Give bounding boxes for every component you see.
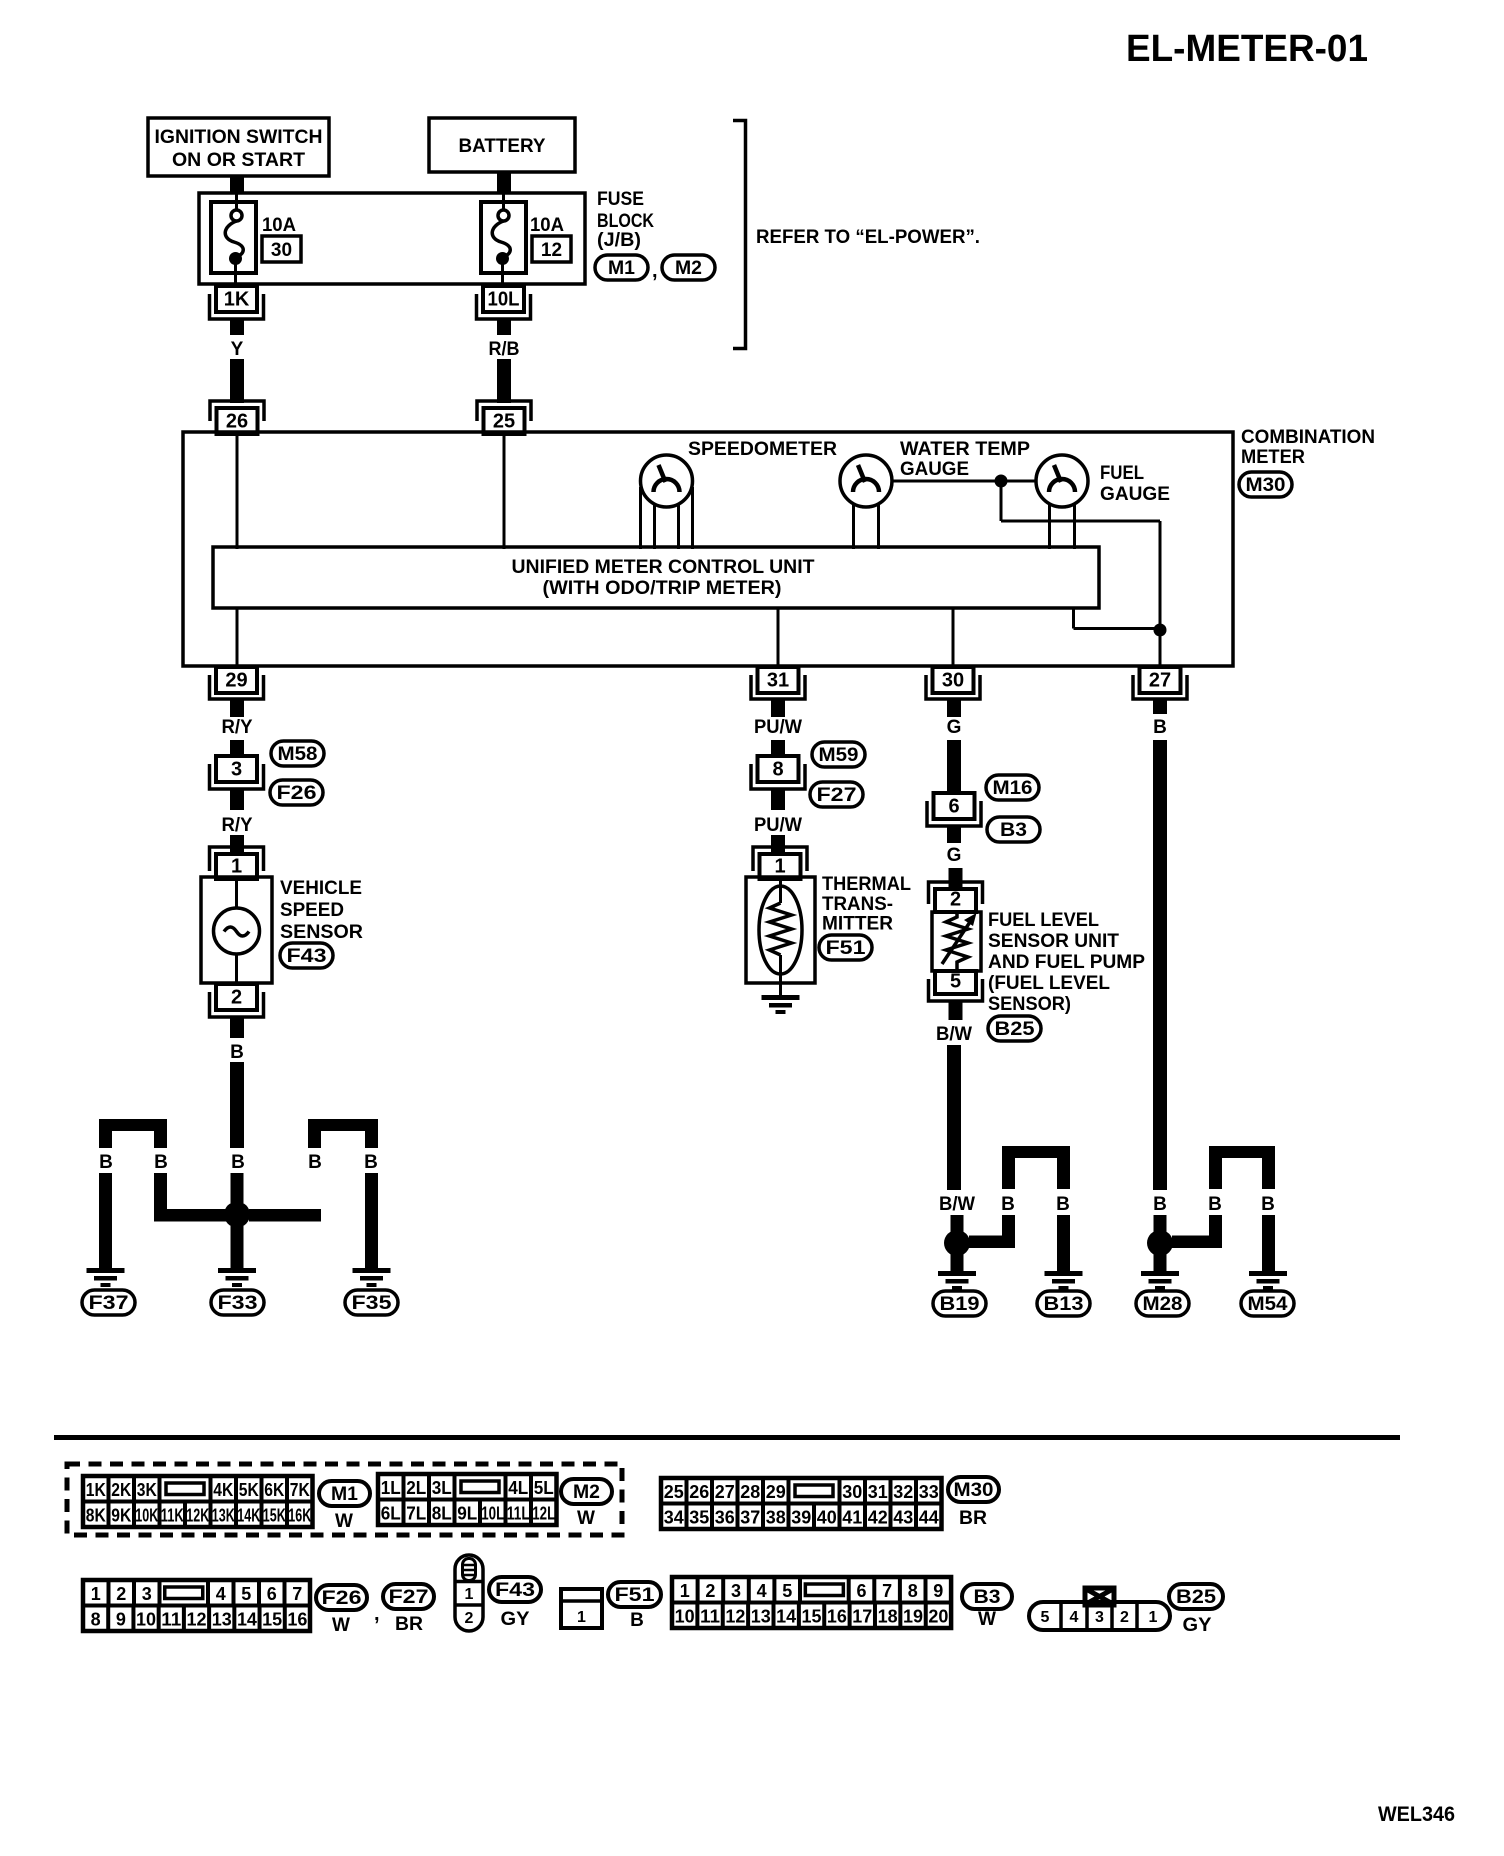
wire PU/W to thermal transmitter <box>771 835 785 854</box>
dashed box (fuse block connectors) <box>67 1464 622 1535</box>
svg-text:COMBINATION: COMBINATION <box>1241 427 1375 448</box>
svg-text:5L: 5L <box>534 1478 554 1498</box>
connector 3 (M58/F26) <box>216 756 257 782</box>
svg-text:26: 26 <box>689 1482 709 1502</box>
connector 31 (combination meter) <box>758 667 799 693</box>
svg-text:3: 3 <box>731 1581 741 1601</box>
svg-text:B3: B3 <box>1000 820 1027 841</box>
svg-text:25: 25 <box>493 411 515 433</box>
svg-text:16: 16 <box>287 1610 307 1630</box>
svg-text:17: 17 <box>852 1607 872 1627</box>
fuse number box 30 <box>262 236 301 262</box>
svg-text:F43: F43 <box>495 1580 535 1601</box>
svg-text:33: 33 <box>919 1482 939 1502</box>
svg-text:R/Y: R/Y <box>222 815 253 836</box>
wire junction down to pin27 net <box>1000 481 1003 521</box>
svg-text:20: 20 <box>928 1607 948 1627</box>
connector ref M1 (table) <box>319 1481 370 1506</box>
svg-text:3: 3 <box>1095 1609 1104 1626</box>
wire B junction segment M28 <box>1154 1215 1167 1233</box>
svg-text:1K: 1K <box>224 289 250 311</box>
wire UMCU to pin 30 <box>952 607 955 666</box>
svg-text:W: W <box>577 1508 595 1529</box>
svg-text:B: B <box>1056 1194 1070 1215</box>
svg-text:PU/W: PU/W <box>754 815 802 836</box>
svg-text:31: 31 <box>767 670 789 692</box>
svg-text:R/Y: R/Y <box>222 717 253 738</box>
fuel level sensor variable resistor <box>932 912 981 971</box>
svg-text:36: 36 <box>715 1508 735 1528</box>
fuse block J/B outline <box>199 193 585 284</box>
ground symbol F33 <box>218 1268 256 1273</box>
wire R/B to connector 25 <box>497 359 511 403</box>
combination meter outline <box>183 432 1233 666</box>
node junction pin 27 net <box>1154 624 1167 637</box>
svg-text:BR: BR <box>959 1508 987 1529</box>
wire PU/W stub below connector 8 <box>771 789 785 810</box>
svg-text:15: 15 <box>802 1607 822 1627</box>
svg-text:7K: 7K <box>290 1480 310 1500</box>
svg-text:,: , <box>652 260 658 282</box>
svg-text:B: B <box>99 1152 113 1173</box>
svg-text:F33: F33 <box>218 1293 258 1314</box>
connector ref F26 <box>270 780 323 805</box>
svg-text:F35: F35 <box>352 1293 393 1314</box>
svg-text:30: 30 <box>942 670 964 692</box>
svg-text:5: 5 <box>1041 1609 1050 1626</box>
connector ref M28 <box>1136 1291 1189 1316</box>
svg-text:4: 4 <box>1070 1609 1079 1626</box>
ground symbol (thermal transmitter) <box>762 995 800 1000</box>
wire R/Y stub below connector 3 <box>230 789 244 810</box>
svg-text:2: 2 <box>950 889 961 911</box>
svg-text:10K: 10K <box>135 1506 158 1526</box>
svg-text:BLOCK: BLOCK <box>597 211 654 232</box>
svg-text:2: 2 <box>1120 1609 1129 1626</box>
wire G stub below 30 <box>947 699 961 717</box>
svg-text:IGNITION SWITCH: IGNITION SWITCH <box>155 127 323 148</box>
connector 2 (vehicle speed sensor) <box>216 984 257 1010</box>
connector ref F37 <box>82 1290 135 1315</box>
connector ref F51 (table) <box>608 1582 661 1607</box>
svg-text:1: 1 <box>231 856 242 878</box>
svg-text:10A: 10A <box>530 215 564 236</box>
svg-text:M54: M54 <box>1248 1294 1288 1315</box>
svg-text:1: 1 <box>91 1584 101 1604</box>
connector 2 (fuel level sensor) <box>929 882 983 904</box>
wire G to fuel level sensor <box>949 868 963 890</box>
fuse F2 10A (fuse 12) <box>481 202 526 273</box>
svg-text:14: 14 <box>776 1607 796 1627</box>
svg-text:SENSOR: SENSOR <box>280 922 363 943</box>
pin connector F51 (1-pin) <box>561 1589 602 1628</box>
connector ref F27 <box>810 782 863 807</box>
connector 25 (combination meter) <box>477 401 531 421</box>
wire G stub below connector 6 <box>947 827 961 843</box>
svg-text:10L: 10L <box>488 289 520 311</box>
svg-text:5: 5 <box>241 1584 251 1604</box>
svg-text:15K: 15K <box>263 1506 286 1526</box>
svg-text:M1: M1 <box>331 1484 358 1505</box>
svg-text:3: 3 <box>231 759 242 781</box>
wire B down to ground F35 <box>365 1173 378 1268</box>
svg-text:10A: 10A <box>262 215 296 236</box>
svg-text:F43: F43 <box>287 946 327 967</box>
svg-text:1K: 1K <box>86 1480 106 1500</box>
svg-text:F27: F27 <box>817 785 857 806</box>
svg-text:GAUGE: GAUGE <box>900 459 969 480</box>
svg-text:1: 1 <box>680 1581 690 1601</box>
wire UMCU to pin 29 <box>236 607 239 666</box>
svg-text:B13: B13 <box>1044 1294 1084 1315</box>
svg-text:2: 2 <box>705 1581 715 1601</box>
wire pin26 to unified meter control unit <box>236 434 239 549</box>
svg-text:11L: 11L <box>507 1504 530 1524</box>
svg-text:B: B <box>1208 1194 1222 1215</box>
svg-text:37: 37 <box>740 1508 760 1528</box>
wire battery to fuse block <box>497 172 511 194</box>
connector ref M59 <box>812 742 865 767</box>
svg-text:11K: 11K <box>161 1506 184 1526</box>
svg-text:(WITH ODO/TRIP METER): (WITH ODO/TRIP METER) <box>543 578 782 599</box>
fuse number box 12 <box>532 236 571 262</box>
svg-text:29: 29 <box>766 1482 786 1502</box>
svg-text:39: 39 <box>791 1508 811 1528</box>
svg-text:REFER TO “EL-POWER”.: REFER TO “EL-POWER”. <box>756 227 980 248</box>
connector 5 (fuel level sensor) <box>935 971 976 994</box>
wire Y stub below 1K <box>230 319 244 335</box>
svg-text:BR: BR <box>395 1614 423 1635</box>
svg-text:BATTERY: BATTERY <box>459 136 546 157</box>
svg-text:F26: F26 <box>277 783 317 804</box>
wire B13 jumper to junction <box>1002 1215 1015 1248</box>
svg-text:30: 30 <box>271 240 292 261</box>
water temp gauge <box>840 455 892 507</box>
svg-text:UNIFIED METER CONTROL UNIT: UNIFIED METER CONTROL UNIT <box>512 557 815 578</box>
fuse F1 10A (fuse 30) <box>211 202 256 273</box>
wire M54 jumper to junction <box>1209 1215 1222 1248</box>
connector ref M2 (table) <box>561 1479 612 1504</box>
svg-text:AND FUEL PUMP: AND FUEL PUMP <box>988 952 1145 973</box>
node ground junction F33 <box>224 1202 250 1228</box>
connector ref M1 (fuse block) <box>595 255 648 280</box>
connector ref F27 (table) <box>383 1584 434 1609</box>
svg-text:(FUEL LEVEL: (FUEL LEVEL <box>988 973 1110 994</box>
svg-text:32: 32 <box>893 1482 913 1502</box>
svg-text:SENSOR): SENSOR) <box>988 994 1071 1015</box>
svg-text:8: 8 <box>772 759 783 781</box>
wire PU/W stub below 31 <box>771 699 785 717</box>
wire B/W stub below fuel sensor <box>949 1001 963 1020</box>
svg-text:35: 35 <box>689 1508 709 1528</box>
svg-text:1: 1 <box>577 1609 586 1626</box>
wire B down to ground M54 <box>1262 1215 1275 1271</box>
svg-text:M1: M1 <box>608 258 635 279</box>
svg-text:16K: 16K <box>288 1506 311 1526</box>
svg-text:9K: 9K <box>111 1506 131 1526</box>
svg-text:12: 12 <box>187 1610 207 1630</box>
svg-text:9L: 9L <box>457 1504 477 1524</box>
wire B down to ground B13 <box>1057 1215 1070 1271</box>
pin connector F43 (2-pin) <box>455 1555 483 1631</box>
svg-text:Y: Y <box>231 339 244 360</box>
wire junction to ground M28 <box>1154 1254 1167 1271</box>
svg-text:43: 43 <box>893 1508 913 1528</box>
svg-text:M30: M30 <box>954 1480 994 1501</box>
svg-text:8: 8 <box>908 1581 918 1601</box>
svg-text:8K: 8K <box>86 1506 106 1526</box>
svg-text:M59: M59 <box>819 745 859 766</box>
svg-text:1: 1 <box>465 1586 474 1603</box>
wire B jumper right (F35 side) <box>308 1119 378 1131</box>
svg-text:15: 15 <box>262 1610 282 1630</box>
svg-text:B: B <box>154 1152 168 1173</box>
svg-text:B/W: B/W <box>939 1194 975 1215</box>
svg-text:W: W <box>335 1511 353 1532</box>
ground symbol B13 <box>1045 1271 1083 1276</box>
connector ref M16 <box>986 775 1039 800</box>
svg-text:10: 10 <box>136 1610 156 1630</box>
wire B center to junction <box>231 1173 244 1203</box>
svg-text:GY: GY <box>1183 1615 1212 1636</box>
wire junction to ground F33 <box>231 1226 244 1268</box>
svg-text:6K: 6K <box>264 1480 284 1500</box>
wire pin25 to unified meter control unit <box>503 434 506 549</box>
svg-text:34: 34 <box>664 1508 684 1528</box>
svg-text:F51: F51 <box>615 1585 656 1606</box>
wire B to ground junction M28 <box>1153 740 1167 1190</box>
svg-text:12K: 12K <box>186 1506 209 1526</box>
svg-text:W: W <box>332 1615 350 1636</box>
svg-text:29: 29 <box>225 670 247 692</box>
svg-text:W: W <box>978 1609 996 1630</box>
svg-text:2K: 2K <box>111 1480 131 1500</box>
wire B down to ground F37 <box>99 1173 112 1268</box>
wire B stub below VSS <box>230 1017 244 1038</box>
svg-text:B: B <box>1153 717 1167 738</box>
svg-text:25: 25 <box>664 1482 684 1502</box>
wire water temp gauge to fuel gauge <box>890 480 1038 483</box>
svg-text:7: 7 <box>292 1584 302 1604</box>
svg-text:B: B <box>308 1152 322 1173</box>
connector 1 (vehicle speed sensor) <box>210 847 264 871</box>
svg-text:WATER TEMP: WATER TEMP <box>900 439 1030 460</box>
svg-text:11: 11 <box>161 1610 181 1630</box>
connector ref B19 <box>933 1291 986 1316</box>
svg-text:MITTER: MITTER <box>822 914 893 935</box>
svg-text:SENSOR UNIT: SENSOR UNIT <box>988 931 1119 952</box>
wire R/Y to connector M58 <box>230 740 244 757</box>
svg-text:M16: M16 <box>993 778 1033 799</box>
svg-text:F51: F51 <box>826 938 867 959</box>
svg-text:11: 11 <box>700 1607 720 1627</box>
svg-text:27: 27 <box>715 1482 735 1502</box>
ground symbol F35 <box>353 1268 391 1273</box>
ground symbol M28 <box>1141 1271 1179 1276</box>
svg-text:R/B: R/B <box>489 339 520 360</box>
svg-text:1: 1 <box>1149 1609 1158 1626</box>
wire B stub below 27 <box>1153 699 1167 714</box>
svg-text:PU/W: PU/W <box>754 717 802 738</box>
wire PU/W to connector M59 <box>771 740 785 757</box>
connector 1 (thermal transmitter) <box>753 847 807 871</box>
svg-text:9: 9 <box>116 1610 126 1630</box>
svg-text:B3: B3 <box>974 1587 1001 1608</box>
svg-text:FUSE: FUSE <box>597 189 644 210</box>
svg-text:5: 5 <box>950 971 961 993</box>
svg-text:13: 13 <box>751 1607 771 1627</box>
svg-text:1: 1 <box>774 856 785 878</box>
svg-text:8: 8 <box>91 1610 101 1630</box>
svg-text:FUEL: FUEL <box>1100 463 1144 484</box>
svg-text:8L: 8L <box>432 1504 452 1524</box>
ground symbol M54 <box>1249 1271 1287 1276</box>
connector ref M30 (combination meter) <box>1239 472 1292 497</box>
svg-text:THERMAL: THERMAL <box>822 874 911 895</box>
svg-text:B: B <box>630 1610 644 1631</box>
svg-text:38: 38 <box>766 1508 786 1528</box>
thermal transmitter <box>746 877 815 983</box>
svg-text:3: 3 <box>142 1584 152 1604</box>
wire R/Y stub below 29 <box>230 699 244 717</box>
connector 8 (M59/F27) <box>758 756 799 782</box>
svg-text:2: 2 <box>231 987 242 1009</box>
svg-text:42: 42 <box>868 1508 888 1528</box>
svg-text:F37: F37 <box>89 1293 129 1314</box>
wire B to ground junction <box>230 1062 244 1148</box>
connector 26 (combination meter) <box>210 401 264 421</box>
connector ref F51 <box>819 935 872 960</box>
connector ref B3 (inline) <box>987 817 1040 842</box>
svg-text:B25: B25 <box>995 1019 1035 1040</box>
svg-text:GY: GY <box>501 1609 530 1630</box>
connector ref M58 <box>271 741 324 766</box>
svg-text:44: 44 <box>919 1508 939 1528</box>
wire ignition switch to fuse block <box>230 176 244 194</box>
svg-text:5K: 5K <box>239 1480 259 1500</box>
svg-text:G: G <box>947 845 962 866</box>
svg-text:31: 31 <box>868 1482 888 1502</box>
ignition switch block <box>148 118 329 176</box>
svg-text:,: , <box>374 1603 380 1625</box>
svg-text:F26: F26 <box>322 1588 362 1609</box>
svg-text:FUEL LEVEL: FUEL LEVEL <box>988 910 1099 931</box>
svg-text:6: 6 <box>267 1584 277 1604</box>
connector ref B25 (table) <box>1169 1584 1223 1609</box>
svg-text:B: B <box>364 1152 378 1173</box>
connector ref B13 <box>1037 1291 1090 1316</box>
wire UMCU to pin 31 <box>777 607 780 666</box>
svg-text:2L: 2L <box>406 1478 426 1498</box>
wire G to connector 6 <box>947 740 961 795</box>
node ground junction B19 <box>944 1230 970 1256</box>
svg-text:6: 6 <box>948 796 959 818</box>
svg-text:EL-METER-01: EL-METER-01 <box>1126 28 1368 70</box>
svg-text:16: 16 <box>827 1607 847 1627</box>
svg-text:12L: 12L <box>532 1504 555 1524</box>
svg-text:19: 19 <box>903 1607 923 1627</box>
connector ref F43 (table) <box>489 1577 541 1602</box>
svg-text:9: 9 <box>933 1581 943 1601</box>
svg-text:5: 5 <box>782 1581 792 1601</box>
svg-text:6: 6 <box>856 1581 866 1601</box>
svg-text:G: G <box>947 717 962 738</box>
separator rule <box>54 1435 1400 1440</box>
svg-text:1L: 1L <box>381 1478 401 1498</box>
svg-text:M2: M2 <box>675 258 702 279</box>
ground symbol B19 <box>938 1271 976 1276</box>
svg-text:10: 10 <box>675 1607 695 1627</box>
connector ref B25 (inline) <box>988 1016 1041 1041</box>
svg-text:4L: 4L <box>508 1478 528 1498</box>
svg-text:VEHICLE: VEHICLE <box>280 878 362 899</box>
svg-text:(J/B): (J/B) <box>597 230 641 251</box>
svg-text:M30: M30 <box>1246 475 1286 496</box>
connector 6 (M16/B3) <box>934 793 975 819</box>
wire B/W to ground junction <box>947 1045 961 1190</box>
wire B jumper (M54 side) <box>1209 1146 1275 1158</box>
svg-text:B/W: B/W <box>936 1024 972 1045</box>
wire junction to ground B19 <box>951 1254 964 1271</box>
speedometer pedestal <box>639 487 642 549</box>
pin connector B25 (5-pin) <box>1085 1588 1114 1605</box>
svg-text:B: B <box>230 1042 244 1063</box>
svg-text:10L: 10L <box>481 1504 504 1524</box>
connector ref M54 <box>1241 1291 1294 1316</box>
wire B jumper left (F37 side) <box>99 1119 167 1131</box>
speedometer gauge <box>641 455 693 507</box>
connector ref B3 (table) <box>962 1584 1012 1609</box>
unified meter control unit box <box>213 547 1099 608</box>
svg-text:14: 14 <box>237 1610 257 1630</box>
svg-text:40: 40 <box>817 1508 837 1528</box>
connector 29 (combination meter) <box>216 667 257 693</box>
wire B jumper right to junction <box>365 1173 378 1211</box>
connector 30 (combination meter) <box>933 667 974 693</box>
svg-text:7: 7 <box>882 1581 892 1601</box>
connector ref M30 (table) <box>948 1477 999 1502</box>
svg-text:F27: F27 <box>389 1587 429 1608</box>
wire B/W junction segment <box>951 1215 964 1233</box>
svg-text:4: 4 <box>757 1581 767 1601</box>
fuel gauge pedestal <box>1048 503 1051 549</box>
svg-text:27: 27 <box>1149 670 1171 692</box>
fuel gauge <box>1036 455 1088 507</box>
svg-text:4K: 4K <box>213 1480 233 1500</box>
svg-text:B: B <box>1153 1194 1167 1215</box>
svg-text:B25: B25 <box>1176 1587 1216 1608</box>
wire R/B stub below 10L <box>497 319 511 335</box>
wire Y to connector 26 <box>230 359 244 403</box>
svg-text:2: 2 <box>465 1610 474 1627</box>
bracket refer to EL-POWER <box>733 121 746 349</box>
svg-text:41: 41 <box>842 1508 862 1528</box>
svg-text:M2: M2 <box>573 1482 600 1503</box>
svg-text:B: B <box>1001 1194 1015 1215</box>
svg-text:B19: B19 <box>940 1294 980 1315</box>
svg-text:WEL346: WEL346 <box>1378 1803 1455 1826</box>
wire B jumper left to junction <box>154 1173 167 1211</box>
connector 10L <box>483 286 524 312</box>
svg-text:B: B <box>231 1152 245 1173</box>
connector ref F26 (table) <box>316 1585 367 1610</box>
ground symbol F37 <box>87 1268 125 1273</box>
svg-text:13K: 13K <box>212 1506 235 1526</box>
svg-text:13: 13 <box>212 1610 232 1630</box>
connector 1K <box>216 286 257 312</box>
wire R/Y to vehicle speed sensor <box>230 835 244 854</box>
svg-text:SPEEDOMETER: SPEEDOMETER <box>688 439 837 460</box>
